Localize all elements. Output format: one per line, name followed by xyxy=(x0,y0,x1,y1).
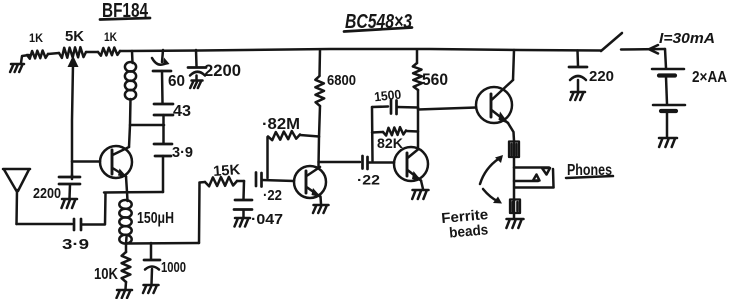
svg-text:BF184: BF184 xyxy=(102,0,149,22)
svg-text:1K: 1K xyxy=(29,31,43,45)
svg-text:82K: 82K xyxy=(377,136,403,151)
svg-text:5K: 5K xyxy=(65,29,85,45)
svg-text:Phones: Phones xyxy=(567,162,612,179)
svg-text:BC548×3: BC548×3 xyxy=(345,11,412,33)
svg-text:150μH: 150μH xyxy=(137,210,174,227)
svg-text:6800: 6800 xyxy=(327,72,356,89)
svg-text:·82M: ·82M xyxy=(262,116,300,133)
svg-text:2200: 2200 xyxy=(204,62,241,80)
svg-text:1K: 1K xyxy=(104,30,117,44)
svg-text:1000: 1000 xyxy=(161,260,186,276)
svg-text:2200: 2200 xyxy=(33,186,61,202)
svg-text:3·9: 3·9 xyxy=(172,144,193,161)
svg-text:·047: ·047 xyxy=(251,212,283,228)
svg-text:10K: 10K xyxy=(94,266,119,283)
svg-text:15K: 15K xyxy=(213,162,242,180)
svg-text:·22: ·22 xyxy=(357,172,380,188)
svg-text:220: 220 xyxy=(589,68,614,85)
svg-text:·22: ·22 xyxy=(263,188,282,204)
svg-text:60: 60 xyxy=(168,73,185,90)
svg-text:560: 560 xyxy=(422,71,448,89)
svg-text:43: 43 xyxy=(173,103,191,120)
svg-text:2×AA: 2×AA xyxy=(692,69,727,86)
svg-text:1500: 1500 xyxy=(373,87,401,105)
svg-text:3·9: 3·9 xyxy=(62,236,89,253)
svg-text:I=30mA: I=30mA xyxy=(659,30,715,47)
svg-text:beads: beads xyxy=(449,222,489,241)
